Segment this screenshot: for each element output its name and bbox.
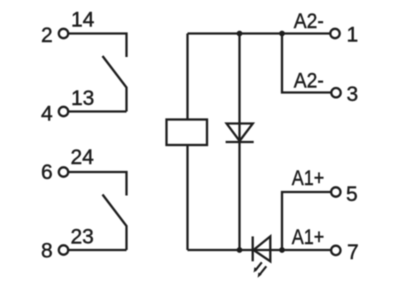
LED V2 triangle: [254, 236, 271, 261]
terminal 4: [59, 107, 68, 116]
svg-text:8: 8: [41, 240, 53, 263]
node top bus / diode branch: [237, 31, 243, 37]
wire bottom bus (A1 rail): [188, 249, 331, 251]
svg-text:A2-: A2-: [294, 10, 324, 33]
svg-text:7: 7: [347, 241, 359, 264]
relay coil K1: [167, 120, 208, 146]
svg-text:24: 24: [71, 146, 95, 169]
switch blade pole 1 (contact 13-14): [103, 56, 127, 112]
node top bus / terminal 3 branch: [279, 31, 285, 37]
LED light arrow 2: [258, 266, 267, 278]
terminal 1: [330, 29, 339, 38]
wire terminal 2 to fixed contact 14: [68, 34, 126, 58]
diode V1 triangle: [227, 124, 253, 142]
terminal 7: [331, 246, 340, 255]
svg-text:6: 6: [41, 161, 53, 184]
diode V1 cathode bar: [226, 141, 254, 143]
svg-text:3: 3: [347, 83, 359, 106]
wire terminal 6 to fixed contact 24: [68, 172, 126, 196]
terminal 5: [331, 187, 340, 196]
node bottom bus / diode branch: [237, 247, 243, 253]
LED V2 cathode bar: [252, 236, 254, 261]
svg-text:4: 4: [41, 103, 53, 126]
node bottom bus / terminal 5 branch: [279, 247, 285, 253]
terminal 3: [331, 88, 340, 97]
terminal 8: [59, 245, 68, 254]
wire branch to terminal 5: [282, 192, 331, 250]
svg-text:1: 1: [347, 24, 359, 47]
svg-text:2: 2: [41, 24, 53, 47]
wire coil branch lower segment: [186, 145, 188, 250]
switch blade pole 2 (contact 23-24): [103, 195, 127, 251]
svg-text:A1+: A1+: [292, 167, 325, 190]
svg-text:A1+: A1+: [292, 226, 325, 249]
svg-text:A2-: A2-: [294, 70, 324, 93]
svg-text:5: 5: [346, 183, 358, 206]
wire coil branch upper segment: [186, 34, 188, 120]
wire diode branch vertical: [238, 34, 240, 251]
wire branch to terminal 3: [282, 34, 331, 93]
terminal 2: [59, 29, 68, 38]
svg-text:13: 13: [71, 87, 94, 110]
svg-text:14: 14: [71, 9, 95, 32]
wire blade pivot to terminal 4: [68, 110, 126, 112]
terminal 6: [59, 167, 68, 176]
svg-text:23: 23: [71, 226, 94, 249]
wire top bus (A2 rail): [188, 32, 331, 34]
LED light arrow 1: [254, 262, 262, 272]
wire blade pivot to terminal 8: [68, 249, 126, 251]
